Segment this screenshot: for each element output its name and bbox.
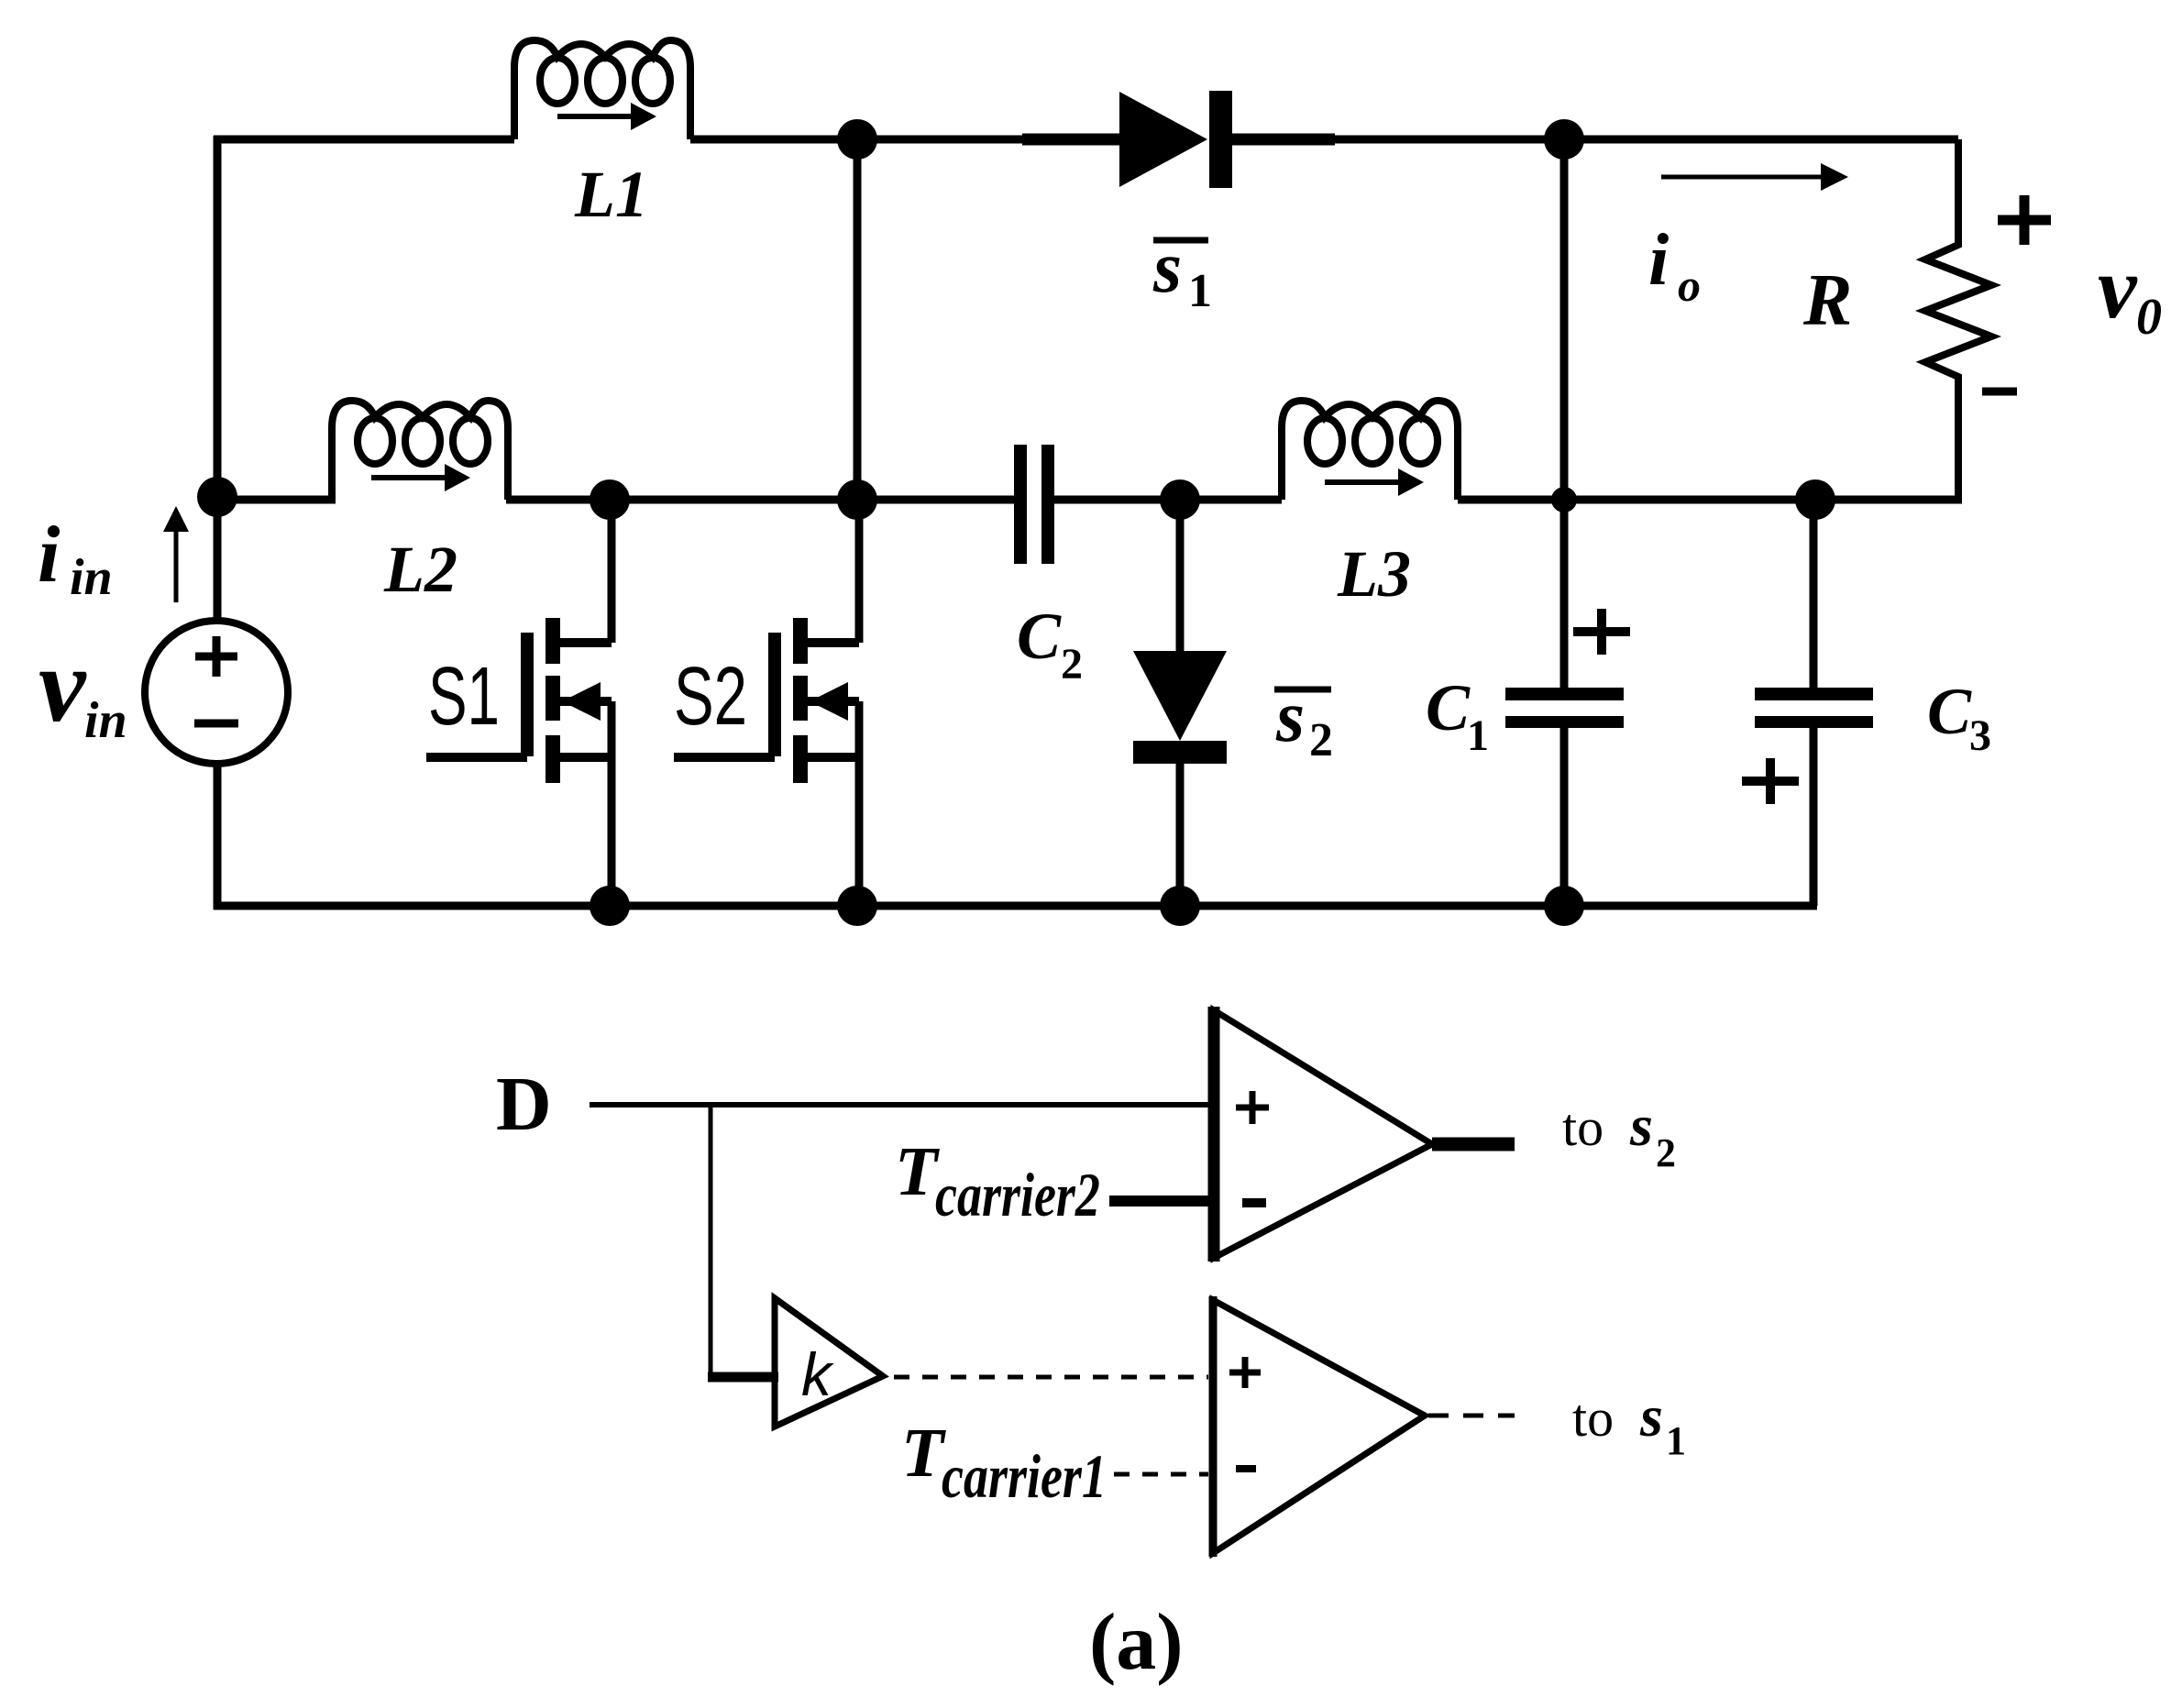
svg-text:i: i	[1648, 220, 1669, 301]
diode S2bar	[1133, 500, 1227, 909]
plus mark C1 polarity	[1573, 609, 1630, 655]
svg-text:S2: S2	[674, 651, 747, 743]
wire: branch vertical from D line	[709, 1105, 713, 1377]
node: middle rail / S2bar diode	[1160, 479, 1200, 520]
node: bottom rail / S1 source	[590, 886, 630, 926]
svg-text:S1: S1	[428, 651, 500, 743]
comparator U2	[1213, 1296, 1425, 1557]
svg-text:s: s	[1152, 227, 1182, 308]
svg-text:2: 2	[1061, 640, 1083, 689]
label s2bar	[1274, 677, 1333, 766]
wire: C1 branch vertical	[1560, 139, 1569, 909]
wire: Tcarrier2 to U1 minus input	[1109, 1196, 1208, 1207]
wire: D to comparator U1 plus input	[590, 1102, 1208, 1107]
svg-text:i: i	[38, 511, 61, 600]
arrow io (output current)	[1661, 163, 1848, 191]
svg-text:L2: L2	[383, 533, 457, 606]
label Tcarrier1	[901, 1415, 1107, 1511]
minus input mark U2	[1236, 1465, 1256, 1472]
svg-text:to: to	[1572, 1388, 1614, 1448]
svg-text:s: s	[1275, 677, 1305, 757]
dashed wire: U2 output	[1428, 1414, 1515, 1418]
svg-text:C: C	[1426, 671, 1471, 744]
node: top rail / C1 branch junction	[1544, 119, 1584, 160]
label s1bar	[1152, 227, 1212, 317]
svg-text:v: v	[2098, 238, 2138, 336]
svg-text:(a): (a)	[1089, 1598, 1184, 1687]
svg-text:T: T	[895, 1133, 940, 1210]
svg-text:C: C	[1927, 675, 1972, 748]
minus mark vo polarity	[1982, 388, 2017, 396]
wire: middle rail segment 1	[214, 496, 336, 504]
label io	[1648, 220, 1701, 311]
plus mark vo polarity	[1998, 195, 2051, 245]
capacitor C3	[1755, 688, 1873, 728]
wire: middle rail segment 4	[1458, 496, 1962, 504]
node: middle rail / C1 branch (small junction)	[1551, 487, 1577, 512]
label vo	[2098, 238, 2162, 346]
label iin	[38, 511, 113, 606]
node: middle rail / C3 branch	[1795, 479, 1835, 520]
minus input mark U1	[1242, 1198, 1266, 1207]
buffer k (gain block)	[775, 1298, 883, 1427]
label C1	[1426, 671, 1489, 760]
svg-text:1: 1	[1467, 711, 1489, 760]
dashed wire: Tcarrier1 to U2 minus input	[1114, 1472, 1208, 1477]
plus input mark U1	[1236, 1091, 1269, 1124]
source Vin (voltage source)	[145, 621, 288, 764]
wire: C3 branch vertical	[1810, 500, 1818, 906]
svg-text:in: in	[84, 692, 127, 749]
wire: middle rail segment 3	[1053, 496, 1282, 504]
wire: thick segment into diode anode	[1022, 134, 1126, 146]
plus mark C3 polarity	[1742, 758, 1799, 804]
svg-text:o: o	[1678, 259, 1701, 311]
svg-text:T: T	[901, 1415, 946, 1492]
wire: thick segment from diode cathode	[1229, 134, 1335, 146]
svg-text:s: s	[1629, 1093, 1653, 1158]
inductor L1	[514, 40, 690, 139]
dashed wire: buffer k to U2 plus input	[894, 1375, 1208, 1380]
label C3	[1927, 675, 1991, 760]
svg-text:in: in	[70, 549, 113, 606]
svg-text:L1: L1	[574, 158, 648, 231]
svg-text:R: R	[1802, 260, 1852, 341]
wire: middle rail segment 2	[506, 496, 1015, 504]
inductor L2	[332, 401, 508, 500]
label Tcarrier2	[895, 1133, 1100, 1229]
wire: top rail middle segment	[690, 136, 1121, 144]
svg-text:3: 3	[1969, 711, 1991, 760]
wire: U1 output	[1432, 1138, 1515, 1152]
label vin	[39, 627, 127, 749]
svg-text:0: 0	[2136, 289, 2162, 346]
wire: top rail right segment	[1230, 136, 1958, 144]
resistor R (load) with leads	[1925, 139, 1991, 500]
wire: branch to buffer k	[708, 1372, 778, 1383]
svg-text:1: 1	[1188, 265, 1212, 317]
label to s2	[1562, 1093, 1676, 1175]
transistor S2 (MOSFET)	[674, 500, 859, 906]
svg-text:C: C	[1017, 600, 1062, 673]
svg-text:1: 1	[1666, 1418, 1686, 1463]
plus input mark U2	[1229, 1357, 1261, 1388]
node: middle rail / S1 drain	[590, 479, 630, 520]
svg-text:D: D	[496, 1062, 552, 1147]
svg-text:2: 2	[1656, 1130, 1676, 1175]
svg-text:s: s	[1639, 1383, 1663, 1449]
label C2	[1017, 600, 1083, 689]
node: bottom rail / C1 branch	[1544, 886, 1584, 926]
svg-text:2: 2	[1309, 714, 1333, 766]
svg-text:carrier1: carrier1	[942, 1443, 1107, 1511]
node: bottom rail / S2 source	[837, 886, 877, 926]
label to s1	[1572, 1383, 1686, 1463]
wire: bottom rail	[214, 902, 1817, 910]
capacitor C2	[1014, 445, 1054, 564]
node: middle rail left (Vin junction)	[197, 477, 237, 517]
node: top rail / L1-S1 junction	[837, 119, 877, 160]
transistor S1 (MOSFET)	[426, 500, 612, 906]
svg-text:L3: L3	[1337, 537, 1411, 611]
comparator U1	[1214, 1007, 1432, 1262]
inductor L3	[1282, 401, 1458, 500]
wire: S2 drain branch to top rail	[854, 139, 862, 500]
svg-text:k: k	[801, 1340, 834, 1408]
node: middle rail / S2 drain	[837, 479, 877, 520]
node: bottom rail / S2bar diode	[1160, 886, 1200, 926]
svg-text:to: to	[1562, 1097, 1603, 1157]
wire: left vertical rail	[214, 136, 222, 909]
wire: top rail left segment	[214, 136, 514, 144]
svg-text:v: v	[39, 627, 87, 744]
svg-text:carrier2: carrier2	[935, 1162, 1100, 1229]
diode S1bar	[1119, 91, 1232, 188]
arrow iin (input current)	[163, 506, 189, 602]
capacitor C1	[1505, 688, 1624, 728]
